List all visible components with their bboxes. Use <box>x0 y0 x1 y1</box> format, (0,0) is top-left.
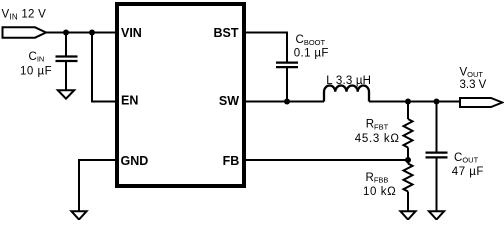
node VIN input flag <box>3 27 47 37</box>
svg-text:FB: FB <box>223 154 240 168</box>
svg-text:3.3 V: 3.3 V <box>460 79 487 91</box>
capacitor C_BOOT plates <box>276 63 298 68</box>
node VOUT output flag <box>460 98 502 107</box>
wire BST pin to CBOOT <box>246 33 287 63</box>
wire RFBB bottom lead <box>407 192 409 212</box>
svg-text:10 kΩ: 10 kΩ <box>363 186 396 198</box>
svg-text:L 3.3 µH: L 3.3 µH <box>326 75 371 87</box>
svg-text:SW: SW <box>219 94 239 108</box>
svg-text:47 µF: 47 µF <box>452 166 484 178</box>
op-amp U1 regulator IC body <box>117 4 244 186</box>
capacitor C_IN plates <box>56 57 78 62</box>
wire VIN rail from flag to VIN pin <box>46 32 115 34</box>
svg-text:10 µF: 10 µF <box>20 65 52 77</box>
junction CIN on VIN rail <box>63 30 69 36</box>
svg-text:0.1 µF: 0.1 µF <box>294 48 329 60</box>
wire GND pin to ground <box>79 160 115 211</box>
wire EN branch horizontal to EN pin <box>91 101 115 103</box>
svg-text:BST: BST <box>214 26 239 40</box>
ground below CIN <box>58 90 74 99</box>
resistor R_FBT <box>404 119 413 148</box>
svg-text:45.3 kΩ: 45.3 kΩ <box>355 133 400 145</box>
wire CIN top lead <box>65 33 67 57</box>
wire COUT bottom lead <box>436 157 438 211</box>
wire RFBT top lead <box>407 102 409 120</box>
wire EN branch vertical <box>91 33 93 102</box>
wire CIN bottom lead <box>65 61 67 90</box>
svg-text:EN: EN <box>121 94 138 108</box>
svg-text:GND: GND <box>121 154 149 168</box>
junction COUT on output rail <box>434 99 440 105</box>
wire RFBB top lead <box>407 160 409 164</box>
wire COUT top lead <box>436 102 438 152</box>
svg-text:VIN 12 V: VIN 12 V <box>2 8 47 21</box>
ground below COUT <box>429 211 444 219</box>
wire RFBT bottom lead <box>407 148 409 161</box>
junction FB node <box>405 157 411 163</box>
wire inductor to VOUT flag <box>369 101 460 103</box>
ground below RFBB <box>400 211 415 219</box>
resistor R_FBB <box>404 164 413 192</box>
capacitor C_OUT plates <box>426 153 448 158</box>
wire FB pin to divider <box>246 159 408 161</box>
ground below GND pin <box>71 211 86 219</box>
wire SW pin to inductor <box>246 101 324 103</box>
wire CBOOT bottom lead to SW rail <box>286 67 288 101</box>
junction RFBT on output rail <box>405 99 411 105</box>
junction EN branch on VIN rail <box>89 30 95 36</box>
junction CBOOT on SW rail <box>284 99 290 105</box>
svg-text:VIN: VIN <box>121 26 142 40</box>
inductor L1 <box>324 85 369 101</box>
